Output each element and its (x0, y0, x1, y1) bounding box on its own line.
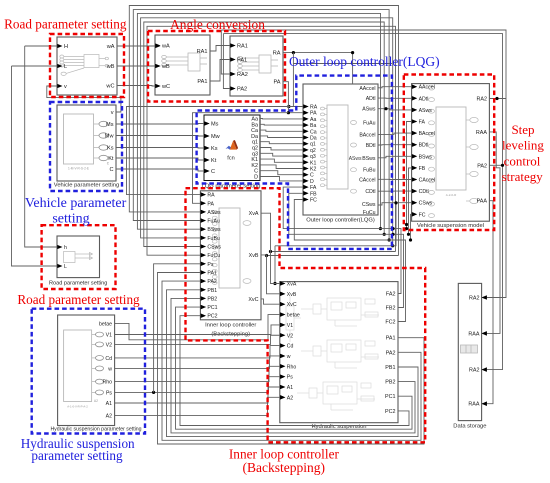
wire fcn q1 to outer loop (260, 142, 303, 144)
wire outer loop output to vehicle model input (378, 133, 412, 134)
dashed blue region Outer loop controller LQG + fcn (197, 76, 392, 249)
svg-text:A1: A1 (106, 401, 112, 407)
svg-text:RAA: RAA (468, 402, 479, 408)
svg-text:RA1: RA1 (197, 49, 208, 55)
svg-text:Ms: Ms (211, 122, 219, 128)
svg-text:K1: K1 (310, 160, 316, 166)
dashed red box Vehicle suspension model (404, 75, 494, 231)
svg-text:RA1: RA1 (237, 44, 248, 50)
wire horizontal segment under outer loop title (293, 63, 392, 65)
svg-text:ADtl: ADtl (419, 96, 429, 102)
svg-text:A-1-0-V-R-P-A-2: A-1-0-V-R-P-A-2 (67, 405, 88, 409)
svg-text:RA2: RA2 (477, 97, 488, 103)
dashed red box Road parameter setting (top) (50, 34, 124, 97)
svg-text:BSws: BSws (362, 156, 376, 162)
svg-text:control: control (504, 154, 541, 169)
svg-text:FuCu: FuCu (207, 253, 220, 259)
svg-text:Ks: Ks (211, 146, 218, 152)
svg-text:PA: PA (207, 201, 214, 207)
hydraulic param preview inner rect (64, 330, 92, 402)
svg-text:V2: V2 (287, 333, 293, 339)
svg-text:wA: wA (106, 44, 115, 50)
angle1 input ports wA,wB,wC (155, 43, 160, 47)
svg-text:RA: RA (207, 193, 215, 199)
svg-text:FuAu: FuAu (363, 121, 376, 127)
wire outer loop output to vehicle model input (378, 144, 412, 146)
hydraulic param output ovals (92, 334, 96, 336)
svg-text:CSws: CSws (362, 202, 376, 208)
svg-text:ASws: ASws (419, 108, 433, 114)
wire H input road top (25, 45, 57, 47)
wire vehicle param to fcn (116, 147, 204, 150)
road bottom preview (64, 252, 93, 263)
wire outer loop output to vehicle model input (378, 190, 412, 192)
wire XvB inner to hydraulic (261, 255, 280, 294)
svg-text:RAA: RAA (476, 130, 487, 136)
wire hydraulic param output across (115, 346, 280, 358)
svg-text:XvA: XvA (249, 211, 259, 217)
svg-text:FuBu: FuBu (363, 168, 376, 174)
svg-text:D: D (310, 179, 314, 185)
subsystem Vehicle parameter setting (57, 105, 116, 181)
svg-text:BDtl: BDtl (419, 143, 429, 149)
wire PAA to data storage (482, 201, 493, 404)
svg-text:RA: RA (310, 105, 318, 111)
wire PA branch to inner loop PA (193, 113, 289, 204)
dashed blue box Vehicle parameter setting (50, 102, 122, 191)
wire hydraulic param output across (115, 356, 280, 368)
svg-text:RAA: RAA (468, 331, 479, 337)
svg-text:FuBu: FuBu (207, 236, 220, 242)
wire v from vehicle param to road v input (47, 86, 121, 112)
wire PA1 angle1 to angle2 (210, 60, 230, 82)
wire hydraulic param output across (115, 366, 280, 381)
svg-text:RA2: RA2 (469, 296, 480, 302)
svg-text:FC: FC (310, 198, 317, 204)
svg-text:v: v (64, 84, 67, 90)
svg-text:PA2: PA2 (237, 87, 247, 93)
inner loop preview (219, 208, 240, 288)
wire hydraulic param output across (115, 387, 280, 403)
wire XvA inner to hydraulic (261, 213, 280, 283)
outer loop input ports (303, 104, 308, 108)
svg-text:PA1: PA1 (386, 336, 396, 342)
angle2 input ports RA1,PA1,RA2,PA2 (230, 43, 235, 47)
svg-text:CSws: CSws (207, 245, 221, 251)
svg-text:FC2: FC2 (385, 320, 395, 326)
vehicle param output ovals (94, 123, 100, 125)
svg-text:1-M-V-R-S-2-E: 1-M-V-R-S-2-E (68, 167, 89, 171)
wire outer loop output to vehicle model input (378, 178, 412, 180)
svg-text:K2: K2 (310, 167, 316, 173)
svg-text:A1: A1 (287, 385, 293, 391)
svg-text:betae: betae (99, 321, 112, 327)
svg-text:wC: wC (161, 84, 170, 90)
wire hydraulic output wrap to inner loop (171, 298, 415, 433)
wire FB riser to vehicle FB (409, 168, 412, 234)
svg-text:ASws: ASws (362, 107, 376, 113)
svg-text:CAccel: CAccel (359, 177, 375, 183)
svg-text:Vehicle suspension model: Vehicle suspension model (417, 223, 484, 229)
svg-text:wB: wB (106, 64, 115, 70)
svg-text:parameter setting: parameter setting (31, 448, 123, 463)
svg-text:FC: FC (419, 212, 426, 218)
vehicle model input ports (412, 85, 417, 89)
svg-text:ASws: ASws (349, 156, 362, 162)
wire fcn D to outer loop (260, 177, 303, 181)
MATLAB logo inside fcn (226, 140, 239, 150)
wire hydraulic param output across (115, 397, 280, 415)
svg-text:PA1: PA1 (237, 58, 247, 64)
svg-text:Ps: Ps (207, 262, 213, 268)
dashed blue box Hydraulic suspension parameter setting (32, 309, 145, 434)
MATLAB function block fcn (LQG parameter setting) (204, 115, 260, 181)
wire fcn Ba to outer loop (260, 123, 303, 126)
svg-text:BDtl: BDtl (366, 143, 376, 149)
svg-text:Kt: Kt (108, 156, 114, 162)
wire PA angle2 to outer loop (283, 82, 303, 113)
svg-text:q1: q1 (310, 142, 316, 148)
svg-text:PC2: PC2 (207, 314, 217, 320)
subsystem Hydraulic suspension (280, 282, 398, 423)
wire vehicle param to fcn (116, 169, 204, 171)
wire hydraulic output wrap to inner loop (167, 290, 419, 437)
subsystem Road parameter setting (bottom) (57, 236, 100, 278)
wire fcn q3 to outer loop (260, 153, 303, 156)
wire fcn Da to outer loop (260, 136, 303, 138)
svg-text:Ks: Ks (107, 146, 114, 152)
wire fcn K2 to outer loop (260, 165, 303, 169)
subsystem Road parameter setting (top) (57, 37, 117, 95)
wire hydraulic param output across (115, 325, 280, 335)
svg-text:H: H (64, 44, 68, 50)
road top input ports H,L,v (57, 44, 62, 48)
svg-text:PB2: PB2 (207, 296, 217, 302)
subsystem Inner loop controller (Backstepping) (200, 191, 261, 320)
svg-text:BSws: BSws (207, 227, 221, 233)
svg-text:Ba: Ba (310, 123, 316, 129)
wire under outer block link drop (274, 246, 276, 284)
wire RA2 feedback top line to data storage (221, 30, 506, 298)
dashed red box Angle conversion (148, 31, 285, 102)
svg-text:PA: PA (310, 111, 317, 117)
wire vehicle param to fcn (116, 135, 204, 138)
wire fcn K1 to outer loop (260, 159, 303, 162)
data storage preview (461, 345, 478, 353)
svg-text:XvB: XvB (249, 253, 259, 259)
svg-text:Ps: Ps (287, 375, 293, 381)
svg-text:fcn: fcn (227, 156, 234, 162)
svg-text:Cd: Cd (287, 344, 294, 350)
svg-text:BAccel: BAccel (359, 132, 375, 138)
svg-text:Ps: Ps (106, 390, 112, 396)
svg-text:Road parameter setting: Road parameter setting (17, 292, 140, 307)
svg-text:PB2: PB2 (385, 380, 395, 386)
svg-text:wB: wB (161, 64, 170, 70)
svg-text:C: C (211, 169, 215, 175)
svg-text:L: L (64, 264, 67, 270)
svg-text:PA1: PA1 (197, 79, 207, 85)
subsystem Data storage (458, 283, 481, 420)
wire betae to hydraulic (115, 315, 280, 340)
svg-text:Data storage: Data storage (453, 424, 486, 430)
svg-text:h: h (64, 245, 67, 251)
svg-text:Mw: Mw (211, 134, 221, 140)
svg-text:BAccel: BAccel (419, 131, 435, 137)
wire fcn Aa to outer loop (260, 118, 303, 120)
vehicle model preview (436, 107, 466, 190)
vehicle param preview inner rect (64, 114, 94, 164)
svg-text:A2: A2 (94, 399, 98, 403)
wire wB road to angle1 (117, 65, 155, 67)
svg-text:PA1: PA1 (207, 270, 217, 276)
svg-text:Ms: Ms (106, 122, 114, 128)
svg-text:FuAu: FuAu (207, 219, 220, 225)
wire RA1 angle1 to angle2 (210, 46, 230, 52)
svg-text:wA: wA (161, 44, 170, 50)
svg-text:XvB: XvB (287, 292, 297, 298)
svg-text:Rho: Rho (287, 364, 297, 370)
wire FA riser to vehicle FA (407, 122, 412, 229)
wire top bundle feedback line (129, 6, 398, 256)
svg-text:D: D (254, 175, 258, 181)
svg-text:BSws: BSws (419, 154, 433, 160)
wire shared L to road bottom (12, 66, 58, 266)
wire hydraulic output wrap to inner loop (176, 307, 413, 429)
road bottom input ports h,L (57, 245, 62, 249)
wire hydraulic param output across (115, 335, 280, 344)
wire hydraulic output wrap to inner loop (158, 273, 425, 445)
svg-text:CDtl: CDtl (365, 189, 375, 195)
hydraulic input ports (280, 281, 285, 285)
svg-text:C: C (310, 173, 314, 179)
svg-text:A2: A2 (287, 395, 293, 401)
wire vehicle param to fcn (116, 123, 204, 126)
svg-text:leveling: leveling (502, 138, 544, 153)
svg-text:AAccel: AAccel (419, 85, 435, 91)
svg-text:Ca: Ca (310, 129, 317, 135)
svg-text:w: w (108, 366, 112, 372)
svg-text:ADtl: ADtl (366, 96, 376, 102)
wire outer loop output to vehicle model input (378, 203, 412, 205)
svg-text:PB1: PB1 (207, 288, 217, 294)
svg-text:Angle conversion: Angle conversion (170, 17, 265, 32)
wire RAA to data storage (482, 132, 500, 334)
angle1 preview (162, 53, 207, 71)
svg-text:q3: q3 (310, 154, 316, 160)
svg-text:V2: V2 (106, 342, 112, 348)
wire top bundle feedback line (141, 18, 393, 246)
svg-text:q2: q2 (310, 148, 316, 154)
svg-text:RA2: RA2 (237, 72, 248, 78)
wire XvC inner to hydraulic (261, 299, 280, 304)
subsystem Vehicle suspension model (412, 84, 490, 222)
svg-text:PA: PA (273, 80, 280, 86)
svg-text:Inner loop controller: Inner loop controller (205, 323, 256, 329)
wire top bundle feedback line (137, 13, 380, 229)
svg-text:CDtl: CDtl (419, 189, 429, 195)
wire RA extension over outer block (283, 53, 353, 84)
svg-text:XvC: XvC (287, 302, 297, 308)
road top preview (60, 55, 109, 76)
svg-text:Vehicle parameter: Vehicle parameter (25, 196, 127, 211)
outer loop preview (327, 105, 348, 189)
wire RA branch to inner loop RA (127, 107, 294, 195)
svg-text:C: C (109, 167, 113, 173)
wire top bundle feedback line (147, 26, 396, 255)
wire outer loop output to vehicle model input (378, 156, 412, 158)
svg-text:PB1: PB1 (385, 365, 395, 371)
svg-text:FA2: FA2 (386, 292, 396, 298)
svg-text:Outer loop controller(LQG): Outer loop controller(LQG) (306, 218, 375, 224)
svg-text:Road parameter setting: Road parameter setting (4, 16, 127, 31)
wire hydraulic param output across (115, 377, 280, 393)
wire RA down to outer loop input (293, 53, 303, 107)
svg-text:RA: RA (273, 51, 281, 57)
wire under blue box lower links (267, 255, 399, 257)
wire RA2 feedback down into angle2 (221, 30, 230, 74)
svg-text:FA: FA (419, 120, 426, 126)
svg-text:Aa: Aa (310, 117, 316, 123)
svg-text:PA2: PA2 (477, 163, 487, 169)
wire fcn q2 to outer loop (260, 148, 303, 150)
svg-text:PAA: PAA (477, 199, 488, 205)
svg-text:Cd: Cd (105, 356, 112, 362)
svg-text:A2: A2 (106, 414, 112, 420)
svg-text:Vehicle parameter setting: Vehicle parameter setting (54, 183, 119, 189)
svg-text:wC: wC (105, 84, 114, 90)
svg-text:Hydraulic suspension parameter: Hydraulic suspension parameter setting (50, 427, 141, 433)
wire RA2 output stub (489, 98, 506, 100)
svg-text:ASws: ASws (207, 210, 221, 216)
svg-text:Rho: Rho (102, 380, 112, 386)
svg-text:Step: Step (511, 122, 534, 137)
wire hydraulic output wrap to inner loop (162, 281, 421, 440)
svg-text:Da: Da (310, 136, 317, 142)
destination arrowheads (155, 44, 160, 48)
wire FC riser to vehicle FC (411, 214, 412, 240)
svg-text:V1: V1 (106, 333, 112, 339)
wire PA2 output stub (489, 164, 502, 166)
wire FB2 under-block line to outer FB (289, 193, 404, 307)
svg-text:V1: V1 (287, 323, 293, 329)
dashed red box Road parameter setting (bottom) (42, 225, 116, 289)
svg-text:PA2: PA2 (207, 279, 217, 285)
svg-text:A-2-0-R: A-2-0-R (446, 193, 457, 197)
wire top bundle feedback line (133, 10, 389, 240)
wire vehicle param to fcn (116, 158, 204, 160)
wire FC2 under-block line to outer FC (294, 200, 405, 322)
wire outer loop output to vehicle model input (378, 87, 412, 88)
wire wC road to angle1 (117, 85, 155, 88)
svg-text:FB2: FB2 (386, 306, 396, 312)
wire top bundle feedback line (144, 22, 384, 247)
svg-text:setting: setting (52, 212, 89, 227)
svg-text:w: w (287, 354, 291, 360)
subsystem angle conversion 2 (230, 36, 283, 96)
data storage input ports RA2,RAA,RA2,RAA (right edge) (482, 295, 487, 299)
wire PA2 feedback top line to data storage (223, 34, 502, 370)
wire hydraulic output wrap to inner loop (180, 316, 409, 426)
svg-text:CAccel: CAccel (419, 178, 435, 184)
svg-text:FB: FB (419, 166, 426, 172)
svg-text:CSws: CSws (419, 201, 433, 207)
svg-text:PC2: PC2 (385, 409, 396, 415)
wire PA2 feedback down into angle2 (223, 34, 230, 89)
wire fcn Ca to outer loop (260, 130, 303, 131)
wire L input road top (12, 65, 58, 67)
wire fcn C to outer loop (260, 171, 303, 175)
svg-text:FuCu: FuCu (363, 210, 376, 216)
svg-text:strategy: strategy (502, 169, 544, 184)
wire wA road to angle1 (117, 45, 155, 47)
wire outer loop output to vehicle model input (378, 109, 412, 110)
svg-text:v: v (111, 110, 114, 116)
svg-text:XvA: XvA (287, 282, 297, 288)
svg-text:betae: betae (287, 313, 300, 319)
svg-text:Outer loop controller(LQG): Outer loop controller(LQG) (289, 54, 440, 69)
svg-text:Road parameter setting: Road parameter setting (49, 281, 107, 287)
subsystem Outer loop controller (LQG) (303, 84, 378, 215)
svg-text:PA2: PA2 (386, 350, 396, 356)
svg-text:Mw: Mw (105, 134, 115, 140)
hydraulic preview (faint internal schematic) (286, 296, 379, 410)
svg-text:(Backstepping): (Backstepping) (243, 460, 325, 475)
angle2 preview (238, 55, 278, 73)
svg-text:XvC: XvC (248, 297, 258, 303)
svg-text:FA: FA (310, 185, 317, 191)
wire Ps branch to inner loop (154, 264, 201, 393)
subsystem Hydraulic suspension parameter setting (58, 315, 115, 426)
svg-text:PC1: PC1 (207, 305, 217, 311)
wire FA2 under-block line to outer FA (283, 187, 401, 293)
dashed red region Inner loop controller + Hydraulic suspension (186, 188, 426, 442)
wire under outer block link to CSws branch (275, 203, 396, 246)
svg-text:PC1: PC1 (385, 394, 396, 400)
wire shared h to road bottom (25, 46, 57, 247)
svg-text:Kt: Kt (211, 158, 217, 164)
fcn input ports Ms,Mw,Ks,Kt,C (204, 121, 209, 125)
inner loop input ports (201, 192, 206, 196)
subsystem angle conversion 1 (155, 35, 210, 95)
svg-text:RA2: RA2 (469, 368, 480, 374)
svg-text:L: L (64, 64, 67, 70)
wire outer loop output to vehicle model input (378, 97, 412, 99)
svg-text:FB: FB (310, 191, 317, 197)
svg-text:AAccel: AAccel (359, 86, 375, 92)
